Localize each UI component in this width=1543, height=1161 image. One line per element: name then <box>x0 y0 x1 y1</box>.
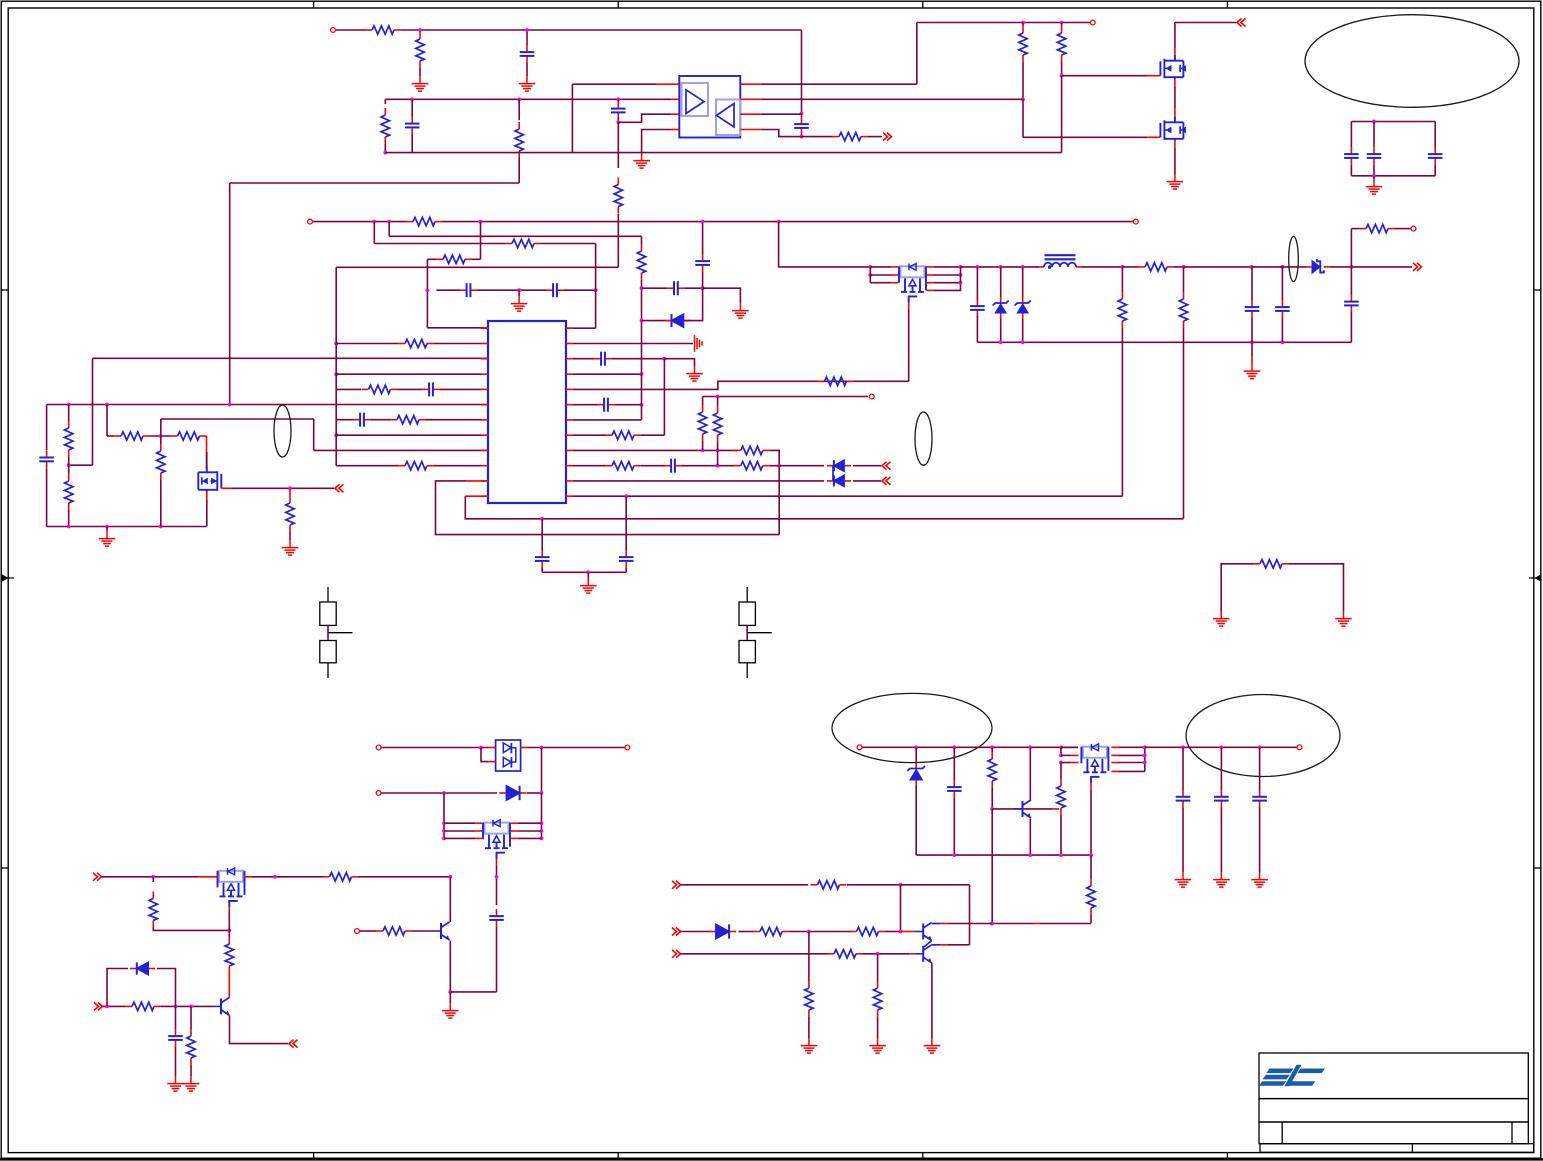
wire <box>444 830 475 832</box>
ground <box>1244 364 1261 379</box>
wire <box>336 388 361 390</box>
pin stub <box>511 822 518 824</box>
wire <box>206 500 208 527</box>
wire (vertical) <box>641 280 643 420</box>
wire <box>1022 99 1024 137</box>
junction <box>1028 745 1032 749</box>
wire <box>68 510 70 527</box>
wire <box>595 244 597 291</box>
wire <box>717 442 719 450</box>
wire <box>625 568 627 572</box>
wire <box>595 290 597 328</box>
ground <box>282 540 299 555</box>
transistor Q8 <box>432 922 450 940</box>
junction <box>701 286 705 290</box>
border tick top <box>922 1 924 8</box>
pin stub <box>481 373 488 375</box>
junction <box>800 135 804 139</box>
pin stub <box>927 274 935 276</box>
MOSFET load switch Q4 <box>901 266 925 277</box>
pin stub <box>1111 754 1119 756</box>
wire <box>419 30 421 32</box>
resistor R35 <box>228 937 230 944</box>
resistor R8 <box>1022 26 1024 33</box>
pin stub <box>927 282 935 284</box>
pin stub <box>1111 770 1119 772</box>
wire <box>681 953 828 955</box>
wire <box>152 877 154 882</box>
wire <box>541 748 543 794</box>
border arrow right <box>1535 574 1542 582</box>
wire <box>434 343 481 345</box>
wire <box>663 359 665 436</box>
wire <box>518 830 542 832</box>
wire <box>702 441 704 450</box>
wire <box>450 991 496 993</box>
resistor R6 <box>436 258 443 260</box>
pin stub <box>891 282 899 284</box>
pin stub <box>1052 808 1059 810</box>
wire <box>374 243 505 245</box>
junction <box>448 990 452 994</box>
junction <box>410 97 414 101</box>
wire (load switch source) <box>908 303 910 309</box>
wire <box>426 259 428 328</box>
wire <box>175 1006 177 1029</box>
wire <box>1060 763 1062 780</box>
resistor R45 <box>827 953 834 955</box>
jumper block J1 <box>320 587 336 625</box>
wire <box>779 465 824 467</box>
wire <box>1121 328 1123 496</box>
diode D3 <box>827 480 834 482</box>
wire <box>1182 747 1184 790</box>
wire <box>385 98 618 100</box>
border tick top <box>617 1 619 8</box>
wire <box>336 465 398 467</box>
open terminal <box>1090 20 1095 25</box>
pin stub <box>521 747 528 749</box>
pin stub <box>481 404 488 406</box>
junction <box>952 745 956 749</box>
junction <box>426 288 430 292</box>
wire from IC pin 11R <box>573 480 824 482</box>
ground <box>1175 872 1192 887</box>
junction <box>1220 745 1224 749</box>
wire <box>808 1017 810 1038</box>
wire <box>1119 770 1145 772</box>
wire <box>518 158 520 183</box>
open terminal <box>857 745 862 750</box>
wire <box>564 289 596 291</box>
wire <box>961 266 1040 268</box>
junction <box>640 319 644 323</box>
wire <box>1175 22 1236 24</box>
junction <box>716 395 720 399</box>
wire <box>1029 819 1031 856</box>
ground <box>580 578 597 593</box>
pin stub <box>1174 141 1176 148</box>
wire <box>991 809 993 924</box>
wire <box>1351 228 1359 230</box>
wire <box>642 287 667 289</box>
wire <box>572 83 656 85</box>
ground <box>1213 872 1230 887</box>
zener diode Z1 <box>1000 297 1002 303</box>
junction <box>189 1005 193 1009</box>
wire <box>915 747 917 762</box>
wire <box>444 822 475 824</box>
wire <box>789 931 850 933</box>
wire <box>863 953 909 955</box>
wire <box>916 23 918 85</box>
wire (Q8 collector) <box>449 877 451 922</box>
wire <box>682 465 738 467</box>
zener diode Z2 <box>1022 297 1024 303</box>
wire <box>160 480 162 527</box>
wire <box>573 465 605 467</box>
junction <box>288 486 292 490</box>
wire <box>976 267 978 300</box>
open terminal <box>625 745 630 750</box>
pin stub <box>481 449 488 451</box>
wire <box>801 135 803 137</box>
ground <box>1335 611 1352 626</box>
ground <box>633 153 650 168</box>
resistor R5 <box>505 243 512 245</box>
resistor R31 <box>1183 292 1185 299</box>
resistor R34 <box>152 892 154 899</box>
junction <box>1059 853 1063 857</box>
wire <box>1121 267 1123 292</box>
ground <box>869 1038 886 1053</box>
wire <box>1040 923 1091 925</box>
pin stub <box>481 327 488 329</box>
resistor R39 <box>991 752 993 759</box>
pin stub <box>665 320 672 322</box>
wire (Q9 collector) <box>1030 799 1032 801</box>
pin stub <box>481 358 488 360</box>
wire <box>541 519 543 550</box>
wire <box>1000 319 1002 342</box>
highlight ellipse E3 <box>915 412 932 465</box>
wire <box>427 258 436 260</box>
wire <box>436 289 459 291</box>
open terminal <box>1133 219 1138 224</box>
wire <box>106 405 108 437</box>
border tick bottom <box>617 1153 619 1160</box>
wire <box>527 29 802 31</box>
pin stub <box>1071 754 1079 756</box>
junction <box>701 449 705 453</box>
wire <box>770 465 780 467</box>
wire <box>1082 266 1122 268</box>
wire <box>612 358 664 360</box>
gate driver U2 <box>679 76 740 138</box>
junction <box>899 930 903 934</box>
wire <box>335 267 337 419</box>
border tick bottom <box>922 1153 924 1160</box>
pin stub <box>657 83 680 85</box>
ground <box>167 1076 184 1091</box>
junction <box>1372 174 1376 178</box>
wire <box>161 418 314 420</box>
junction <box>990 745 994 749</box>
wire <box>107 969 128 1007</box>
wire <box>762 113 802 115</box>
junction <box>976 265 980 269</box>
pin stub <box>488 761 496 763</box>
pin stub <box>740 98 762 100</box>
wire <box>419 68 421 76</box>
resistor R13 <box>114 435 121 437</box>
junction <box>1028 853 1032 857</box>
junction <box>67 403 71 407</box>
wire <box>496 866 498 877</box>
wire <box>157 969 176 1007</box>
transistor Q7 <box>212 997 230 1015</box>
wire from IC pin 5R <box>573 381 909 389</box>
wire <box>870 282 891 284</box>
wire <box>526 63 528 76</box>
diode D2 <box>827 465 834 467</box>
wire <box>360 930 376 932</box>
ground <box>924 1038 941 1053</box>
junction <box>959 273 963 277</box>
wire <box>411 135 413 153</box>
transistor Q12 <box>914 945 932 963</box>
junction <box>999 340 1003 344</box>
wire <box>1373 176 1375 179</box>
junction <box>418 28 422 32</box>
wire <box>801 114 803 118</box>
junction <box>1059 754 1063 758</box>
highlight ellipse E1 <box>1305 15 1519 108</box>
resistor R48 <box>406 221 413 223</box>
wire <box>542 571 626 573</box>
wire (Q7 emitter) <box>230 1015 289 1043</box>
pin stub <box>909 953 914 955</box>
pin stub <box>940 944 948 946</box>
resistor R16 <box>289 496 291 503</box>
resistor R25 <box>605 465 612 467</box>
wire <box>1184 266 1252 268</box>
wire <box>335 420 337 466</box>
wire <box>703 396 820 398</box>
wire <box>518 822 542 824</box>
resistor R28 <box>717 406 719 413</box>
wire <box>1351 175 1435 177</box>
wire <box>1061 746 1078 748</box>
wire <box>573 373 642 375</box>
wire <box>1061 754 1071 756</box>
wire <box>801 30 803 114</box>
wire <box>481 748 488 762</box>
junction <box>1143 754 1147 758</box>
wire <box>526 30 528 45</box>
wire <box>762 83 917 85</box>
ground <box>1213 611 1230 626</box>
junction <box>1021 340 1025 344</box>
junction <box>334 433 338 437</box>
wire <box>336 343 398 345</box>
transistor Q2 (NMOS) <box>1160 55 1183 79</box>
resistor R29 <box>1138 266 1145 268</box>
input connector <box>94 1002 103 1010</box>
junction <box>899 883 903 887</box>
wire (Q12 emitter) <box>931 963 933 1038</box>
wire <box>420 29 527 31</box>
wire <box>401 29 420 31</box>
capacitor C21 <box>1281 300 1283 307</box>
capacitor C24 <box>496 909 498 916</box>
wire <box>1174 266 1184 268</box>
power connector <box>1237 19 1246 27</box>
wire <box>1220 747 1222 790</box>
wire <box>1000 267 1002 297</box>
resistor R41 <box>1090 879 1092 886</box>
junction <box>1143 761 1147 765</box>
pin stub <box>221 487 232 489</box>
pin stub <box>466 480 488 482</box>
wire to Q2 gate <box>1062 75 1147 77</box>
junction <box>442 791 446 795</box>
junction <box>151 875 155 879</box>
wire <box>230 182 520 184</box>
capacitor C7 <box>1373 147 1375 154</box>
capacitor C5 <box>617 102 619 109</box>
wire <box>641 434 664 436</box>
wire <box>1061 23 1063 27</box>
capacitor C26 <box>1182 790 1184 797</box>
resistor R49 <box>1359 228 1366 230</box>
capacitor C2 <box>801 117 803 124</box>
wire <box>478 289 547 291</box>
border tick right <box>1534 289 1541 291</box>
wire <box>440 388 481 390</box>
wire <box>289 532 291 540</box>
wire (bus) to IC pin 6 <box>47 404 488 406</box>
wire <box>976 316 978 342</box>
border tick top <box>313 1 315 8</box>
input connector <box>672 950 681 958</box>
junction <box>990 922 994 926</box>
junction <box>334 342 338 346</box>
pin stub <box>475 837 482 839</box>
pin stub <box>475 822 482 824</box>
wire to U2 pin3 <box>618 114 671 122</box>
wire <box>336 373 481 375</box>
junction <box>540 821 544 825</box>
wire <box>1183 267 1185 292</box>
wire <box>1395 228 1411 230</box>
junction <box>594 288 598 292</box>
ground <box>412 76 429 91</box>
wire <box>1350 312 1352 342</box>
wire <box>1289 564 1344 611</box>
border tick left <box>1 867 8 869</box>
junction <box>105 403 109 407</box>
pin stub <box>566 449 573 451</box>
wire <box>948 944 970 946</box>
pin stub <box>566 495 573 497</box>
wire <box>388 222 390 237</box>
junction <box>387 220 391 224</box>
wire <box>1174 148 1176 174</box>
junction <box>914 745 918 749</box>
wire <box>1145 746 1297 748</box>
diode D6 <box>499 792 506 794</box>
pin stub <box>488 747 496 749</box>
junction <box>952 853 956 857</box>
open terminal <box>1297 745 1302 750</box>
resistor R15 <box>160 444 162 451</box>
wire <box>92 358 94 465</box>
wire (rail) <box>916 854 1091 856</box>
wire <box>175 1047 177 1076</box>
junction <box>990 922 994 926</box>
capacitor C12 <box>541 550 543 557</box>
wire <box>908 309 910 381</box>
resistor R44 <box>850 931 857 933</box>
open terminal <box>308 219 313 224</box>
pin stub <box>475 830 482 832</box>
coupled inductor L1 <box>1038 266 1044 268</box>
pin stub <box>1147 75 1160 77</box>
junction <box>1181 745 1185 749</box>
pin stub <box>671 98 679 100</box>
wire <box>1221 564 1253 611</box>
pin stub <box>1174 79 1176 87</box>
MOSFET load switch Q10 <box>1083 747 1107 758</box>
junction <box>1021 265 1025 269</box>
ground <box>686 366 703 381</box>
capacitor C15 <box>597 404 604 406</box>
wire (bus) <box>385 152 1061 154</box>
pin stub <box>197 876 218 878</box>
wire <box>1251 356 1253 364</box>
highlight ellipse E6 <box>1289 236 1299 281</box>
wire <box>762 98 1023 100</box>
wire <box>102 876 198 878</box>
pin stub <box>566 343 573 345</box>
wire <box>1251 342 1253 356</box>
junction <box>442 829 446 833</box>
wire <box>480 222 482 260</box>
ground <box>1366 179 1383 194</box>
junction <box>640 372 644 376</box>
wire <box>443 793 445 838</box>
power connector <box>883 133 892 141</box>
pin stub <box>206 492 208 500</box>
wire <box>1251 267 1253 300</box>
pin stub <box>740 129 762 131</box>
MOSFET load switch Q6 <box>219 871 243 882</box>
resistor R18 <box>362 388 369 390</box>
wire <box>870 274 891 276</box>
wire <box>1144 747 1146 771</box>
wire <box>228 930 230 937</box>
resistor R30 <box>1121 292 1123 299</box>
junction <box>517 288 521 292</box>
wire <box>960 267 962 283</box>
wire <box>1373 165 1375 176</box>
wire <box>617 99 619 104</box>
wire (rail) <box>977 341 1351 343</box>
resistor R9 <box>1061 26 1063 33</box>
resistor R36 <box>125 1005 132 1007</box>
ground <box>442 1003 459 1018</box>
